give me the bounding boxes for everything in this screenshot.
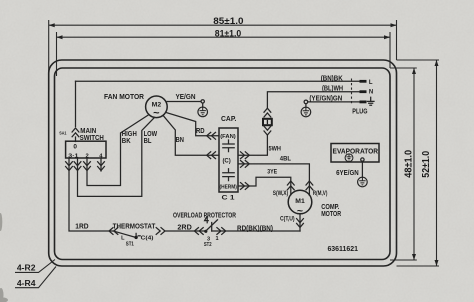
connector arrows terminal 4: [98, 162, 105, 171]
wire YE/GN to ground: [167, 101, 201, 103]
connector arrows 4BL at cap: [241, 161, 250, 168]
svg-text:CAP.: CAP.: [221, 116, 236, 123]
wire GN rail: [308, 101, 360, 103]
compressor motor M1: [288, 190, 312, 217]
wire rail mid: [165, 230, 206, 232]
svg-text:(HERM): (HERM): [220, 184, 238, 190]
svg-text:LOW: LOW: [144, 131, 158, 138]
connector arrows terminal 2: [84, 162, 91, 171]
svg-text:(FAN): (FAN): [220, 134, 236, 140]
svg-text:1RD: 1RD: [75, 223, 88, 230]
connector arrows above inline connector: [264, 108, 271, 117]
fan motor M2: [146, 96, 168, 120]
svg-text:C(T,U): C(T,U): [280, 216, 295, 222]
svg-text:(BN)BK: (BN)BK: [321, 75, 343, 82]
svg-text:48±1.0: 48±1.0: [404, 150, 415, 178]
capacitor C1 box: [219, 128, 238, 192]
wire RD: [166, 113, 218, 136]
svg-text:85±1.0: 85±1.0: [213, 16, 243, 26]
svg-text:RD: RD: [196, 128, 205, 135]
svg-text:BN: BN: [176, 137, 184, 144]
capacitor symbol herm: [223, 169, 234, 181]
corner radius label 4-R4: [15, 267, 56, 288]
case outline outer (R4): [49, 60, 397, 266]
svg-text:0: 0: [73, 143, 77, 150]
dimension line 85±1.0: [49, 16, 397, 74]
connector arrows thermostat left: [109, 228, 118, 235]
connector arrows SA1: [72, 128, 79, 137]
svg-text:MAIN: MAIN: [80, 128, 96, 135]
svg-text:N: N: [369, 89, 373, 95]
connector arrows overload left: [194, 228, 203, 235]
connector arrows 3YE at motor: [287, 181, 294, 190]
svg-text:81±1.0: 81±1.0: [215, 28, 242, 38]
inline connector block: [262, 118, 273, 126]
svg-text:4-R2: 4-R2: [17, 262, 36, 272]
svg-text:(C): (C): [222, 159, 230, 165]
chassis ground below evaporator: [358, 177, 368, 187]
plug terminal N: [360, 89, 374, 95]
svg-text:YE/GN: YE/GN: [175, 94, 195, 101]
dimension line 52±1.0: [397, 60, 440, 266]
wire 4BL: [239, 164, 309, 195]
svg-text:3YE: 3YE: [267, 169, 277, 176]
connector arrows BN: [207, 152, 216, 159]
connector arrows 4BL at motor: [306, 181, 313, 190]
connector arrows 3YE at cap: [241, 183, 250, 190]
chassis ground for fan motor: [198, 100, 208, 117]
svg-text:S(W,X): S(W,X): [273, 191, 289, 197]
case outline inner (R2): [55, 68, 391, 260]
wire 5WH: [239, 135, 267, 155]
wire SA1 feed: [75, 81, 77, 141]
svg-text:HIGH: HIGH: [122, 131, 137, 138]
wire LOW BL: [78, 117, 155, 196]
svg-text:ST1: ST1: [126, 242, 134, 248]
scan smudges (left edge): [0, 213, 8, 302]
svg-text:1: 1: [216, 236, 219, 242]
svg-text:RD(BK)(BN): RD(BK)(BN): [237, 225, 273, 232]
svg-text:ST2: ST2: [204, 242, 212, 248]
connector arrows below inline connector: [264, 126, 271, 135]
wire bottom rail 1RD: [69, 158, 115, 231]
evaporator box: [331, 144, 379, 163]
svg-text:MOTOR: MOTOR: [321, 209, 341, 218]
svg-text:4-R4: 4-R4: [17, 278, 36, 288]
connector arrows overload right: [217, 228, 226, 235]
connector arrows thermostat right: [156, 228, 165, 235]
svg-text:R(M,V): R(M,V): [313, 191, 328, 197]
wire compressor C to rail: [299, 214, 301, 231]
svg-text:BK: BK: [122, 138, 131, 145]
svg-text:(BL)WH: (BL)WH: [322, 86, 343, 93]
svg-text:52±1.0: 52±1.0: [421, 151, 432, 178]
svg-text:L: L: [121, 235, 125, 241]
main switch SA1: [66, 141, 106, 159]
plug boundary dashed: [351, 79, 353, 105]
evaporator earth terminal circle: [361, 158, 364, 161]
svg-text:C(4): C(4): [141, 235, 154, 241]
svg-text:(YE/GN)GN: (YE/GN)GN: [309, 95, 342, 102]
wire rail right: [212, 230, 300, 232]
connector arrows 5WH at cap: [241, 152, 250, 159]
wire BN: [164, 116, 219, 155]
switch terminal 4 stub: [100, 158, 102, 171]
plug terminal earth: [360, 97, 375, 105]
connector arrows terminal 3: [66, 162, 73, 171]
svg-text:FAN MOTOR: FAN MOTOR: [104, 92, 145, 101]
svg-text:L: L: [369, 80, 373, 86]
wire HIGH BK: [87, 115, 149, 186]
svg-text:EVAPORATOR: EVAPORATOR: [333, 146, 379, 155]
svg-text:C 1: C 1: [222, 195, 236, 202]
connector arrows terminal 1: [74, 162, 81, 171]
thermostat ST1: [115, 231, 141, 239]
wire L rail: [76, 80, 360, 82]
svg-text:BL: BL: [144, 138, 152, 145]
svg-text:5WH: 5WH: [269, 145, 282, 152]
svg-text:2RD: 2RD: [177, 224, 191, 231]
svg-text:THERMOSTAT: THERMOSTAT: [113, 223, 156, 230]
svg-text:SA1: SA1: [59, 131, 66, 137]
svg-text:4BL: 4BL: [280, 155, 291, 162]
dimension line 81±1.0: [57, 28, 391, 76]
plug terminal L: [360, 80, 373, 86]
overload protector ST2: [204, 217, 217, 233]
svg-text:6YE/GN: 6YE/GN: [336, 170, 359, 177]
dimension line 48±1.0: [390, 68, 417, 260]
capacitor symbol fan: [223, 140, 234, 152]
chassis ground for plug GN: [301, 100, 311, 117]
wire 3YE: [239, 177, 291, 195]
wire N rail: [267, 92, 359, 109]
svg-text:PLUG: PLUG: [352, 109, 367, 116]
svg-text:OVERLOAD PROTECTOR: OVERLOAD PROTECTOR: [173, 213, 236, 220]
svg-text:63611621: 63611621: [327, 244, 358, 253]
corner radius label 4-R2: [15, 260, 55, 273]
chassis ground inside evaporator: [345, 154, 353, 162]
connector arrows compressor C: [297, 219, 304, 228]
connector arrows RD: [207, 132, 216, 139]
wire evaporator earth: [361, 161, 363, 177]
